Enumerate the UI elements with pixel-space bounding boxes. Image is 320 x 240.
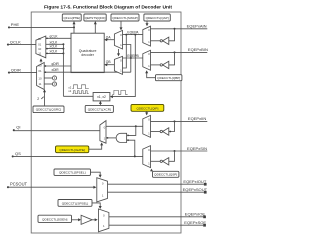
svg-text:QEPSTS[QDF]: QEPSTS[QDF]	[85, 16, 106, 20]
wire qDIR	[44, 62, 71, 67]
wire EQEPB	[123, 54, 143, 59]
mux index gate select	[100, 121, 106, 144]
x1,x2 block	[93, 93, 110, 101]
pin PHE	[8, 22, 75, 28]
wire EQEPxSOUT	[108, 187, 208, 194]
svg-text:11: 11	[38, 82, 41, 86]
node constant 0	[44, 82, 56, 86]
svg-text:QDECCTL[QSP]: QDECCTL[QSP]	[154, 173, 177, 177]
svg-text:QDECCTL[QBP]: QDECCTL[QBP]	[157, 76, 180, 80]
wire xCLK row3	[46, 50, 65, 55]
svg-text:01: 01	[38, 42, 42, 46]
demux SPSEL output enable	[99, 209, 109, 232]
svg-text:QDECCTL[SPSEL]: QDECCTL[SPSEL]	[62, 201, 89, 205]
inverter S	[151, 158, 169, 165]
wire QSRC select	[37, 89, 46, 106]
svg-text:00: 00	[38, 63, 42, 67]
inverter A	[151, 37, 169, 44]
svg-text:01: 01	[38, 69, 42, 73]
wire EQEPB to swap A input1 / xDIR	[123, 45, 131, 73]
register box QFLG[PHE]	[62, 14, 81, 21]
register box QDECCTL[SPSEL] upper	[54, 169, 102, 178]
mux QDIR source select	[37, 63, 45, 90]
svg-text:x1, x2: x1, x2	[97, 95, 106, 99]
svg-text:QDECCTL[QIP]: QDECCTL[QIP]	[136, 106, 158, 110]
waveform x2 x1	[68, 85, 88, 94]
wire EQEPxBIN	[151, 47, 208, 65]
register box QDECCTL[QSP]	[150, 169, 179, 178]
svg-text:xCLK: xCLK	[50, 45, 59, 49]
svg-text:x1: x1	[68, 89, 71, 93]
mux swap B	[114, 56, 122, 74]
svg-text:xDIR: xDIR	[52, 68, 60, 72]
svg-text:qDIR: qDIR	[52, 62, 60, 66]
wire EQEPA	[123, 30, 143, 35]
svg-text:decoder: decoder	[81, 53, 94, 57]
wire EQEPxIIN	[151, 116, 208, 132]
buffer PCSOUT	[81, 215, 98, 224]
wire QDF to QEPSTS[QDF]	[94, 21, 97, 33]
register box QDECCTL[QIP] highlighted	[131, 104, 164, 115]
mux polarity QAP	[143, 26, 151, 46]
decoder unit boundary	[31, 12, 181, 233]
svg-text:QA: QA	[106, 35, 112, 39]
wire QA	[104, 35, 114, 41]
svg-text:00: 00	[38, 37, 42, 41]
wire EQEPA to x1x2 block	[110, 35, 135, 99]
wire QB	[104, 60, 114, 66]
svg-text:QI: QI	[16, 124, 20, 129]
wire index to gating	[106, 125, 143, 136]
svg-text:QDECCTL[XCR]: QDECCTL[XCR]	[88, 107, 111, 111]
register box QDECCTL[SPSEL] lower	[58, 200, 102, 210]
inverter I	[151, 128, 169, 135]
demux SPSEL sync out	[97, 178, 108, 202]
register box QDECCTL[SOEN]	[38, 215, 81, 222]
svg-text:Figure 17-5. Functional Block: Figure 17-5. Functional Block Diagram of…	[44, 5, 172, 11]
wire QSRC select stub to QCLK mux	[40, 58, 43, 62]
node constant 1	[44, 76, 56, 80]
inverter B	[151, 61, 169, 68]
svg-text:QB: QB	[106, 60, 112, 64]
svg-text:EQEPxIOUT: EQEPxIOUT	[183, 179, 206, 184]
svg-text:EQEPxAIN: EQEPxAIN	[187, 24, 207, 29]
svg-text:x2: x2	[68, 85, 71, 89]
svg-text:EQEPB: EQEPB	[127, 54, 139, 58]
AND gate index gating	[116, 133, 127, 142]
svg-text:EQEPxBIN: EQEPxBIN	[188, 47, 208, 52]
wire EQEPxAIN	[151, 24, 208, 41]
mux polarity QSP	[143, 146, 151, 168]
pin QS	[12, 151, 143, 157]
wire xCLK vertical	[62, 43, 93, 96]
wire xCLK row1	[46, 40, 64, 44]
wire XCR select	[99, 101, 102, 106]
svg-text:Quadrature: Quadrature	[79, 49, 97, 53]
mux polarity QBP	[143, 50, 151, 70]
wire AND strobe input	[127, 139, 136, 157]
pin QDIR	[8, 67, 37, 73]
svg-text:EQEPxIIN: EQEPxIIN	[188, 116, 207, 121]
quadrature decoder U1	[71, 33, 104, 72]
pin QI	[13, 124, 100, 131]
register box QDECCTL[IGATE] highlighted	[56, 142, 104, 152]
register box QDECCTL[QBP]	[145, 70, 182, 81]
pin QCLK	[7, 39, 36, 45]
register box QDECCTL[XCR]	[85, 105, 113, 112]
svg-text:EQEPxSOE: EQEPxSOE	[184, 220, 206, 225]
svg-text:10: 10	[38, 47, 42, 51]
register box QDECCTL[QAP]	[144, 14, 170, 21]
svg-text:QDECCTL[IGATE]: QDECCTL[IGATE]	[59, 148, 85, 152]
svg-text:11: 11	[38, 52, 41, 56]
svg-text:PCSOUT: PCSOUT	[10, 182, 28, 187]
wire SWAP select to swap muxes	[117, 21, 123, 56]
pin PCSOUT	[7, 182, 96, 189]
waveform xCLK input	[112, 90, 127, 94]
svg-text:QFLG[PHE]: QFLG[PHE]	[63, 16, 80, 20]
register box QDECCTL[QSRC]	[33, 106, 64, 113]
wire EQEPxSOE	[109, 220, 207, 227]
svg-text:QDECCTL[SWAP]: QDECCTL[SWAP]	[112, 16, 138, 20]
svg-text:QDECCTL[SOEN]: QDECCTL[SOEN]	[42, 217, 67, 221]
svg-text:QDECCTL[QAP]: QDECCTL[QAP]	[146, 16, 169, 20]
svg-text:QDIR: QDIR	[11, 67, 21, 72]
register box QDECCTL[SWAP]	[111, 14, 139, 21]
wire xCLK row2	[46, 45, 65, 50]
svg-text:EQEPA: EQEPA	[127, 30, 139, 34]
mux polarity QIP	[143, 115, 151, 137]
wire AND out to mux	[106, 137, 116, 139]
wire xDIR	[44, 68, 131, 73]
svg-text:2: 2	[37, 97, 39, 101]
mux swap A	[114, 30, 122, 49]
svg-text:qCLK: qCLK	[50, 34, 59, 38]
svg-text:EQEPxSOUT: EQEPxSOUT	[183, 187, 208, 192]
svg-text:xCLK: xCLK	[50, 50, 59, 54]
svg-text:QDECCTL[SPSEL]: QDECCTL[SPSEL]	[59, 171, 86, 175]
svg-text:EQEPxSIN: EQEPxSIN	[187, 146, 207, 151]
svg-text:QDECCTL[QSRC]: QDECCTL[QSRC]	[36, 108, 62, 112]
wire EQEPxSIN	[151, 146, 208, 162]
wire PHE flag to QFLG[PHE]	[73, 21, 76, 33]
wire EQEPA to swap B input1	[123, 35, 127, 68]
register box QEPSTS[QDF]	[84, 14, 106, 21]
svg-text:QCLK: QCLK	[10, 39, 21, 44]
wire EQEPxIOE	[109, 212, 206, 219]
mux QCLK source select	[36, 36, 46, 58]
svg-text:10: 10	[38, 77, 42, 81]
svg-text:QS: QS	[15, 151, 21, 156]
svg-text:EQEPxIOE: EQEPxIOE	[185, 212, 206, 217]
wire EQEPxIOUT	[108, 179, 207, 186]
svg-text:PHE: PHE	[11, 22, 20, 27]
wire qCLK	[46, 34, 71, 39]
wire QAP select to polarity mux	[146, 21, 149, 26]
